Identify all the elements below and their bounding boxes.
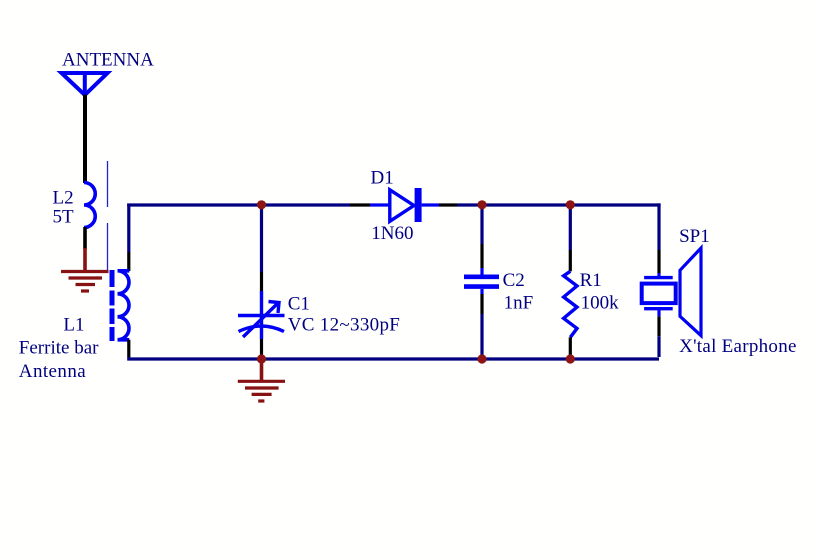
pin SP1 bottom black xyxy=(657,316,660,336)
diode D1 xyxy=(390,188,422,222)
ground GND2 xyxy=(238,358,285,401)
speaker SP1 xyxy=(642,248,701,336)
pin D1 left black xyxy=(350,203,370,206)
wire SP1 branch lower xyxy=(657,336,660,357)
resistor R1 xyxy=(564,271,577,337)
pin C1 bottom black xyxy=(260,339,263,356)
pin SP1 bottom blue xyxy=(657,309,660,317)
svg-text:1N60: 1N60 xyxy=(371,223,413,244)
svg-text:X'tal Earphone: X'tal Earphone xyxy=(679,336,797,357)
svg-text:1nF: 1nF xyxy=(504,293,534,314)
svg-text:Antenna: Antenna xyxy=(19,361,86,382)
pin C2 bottom blue xyxy=(480,289,483,294)
pin C2 top black xyxy=(480,244,483,268)
pin C1 top black xyxy=(260,272,263,291)
wire C1 branch upper xyxy=(260,205,263,272)
junction top R1 xyxy=(566,200,575,209)
pin SP1 top blue xyxy=(657,273,660,278)
svg-text:D1: D1 xyxy=(371,167,394,188)
pin D1 right blue xyxy=(422,203,439,206)
pin C2 top blue xyxy=(480,268,483,275)
pin R1 top black xyxy=(569,250,572,271)
wire L2 to ground xyxy=(83,227,87,249)
svg-text:ANTENNA: ANTENNA xyxy=(62,50,154,71)
pin C2 bottom black xyxy=(480,294,483,314)
ground GND1 xyxy=(61,248,109,291)
svg-text:L1: L1 xyxy=(63,315,84,336)
ferrite core line xyxy=(107,161,109,207)
wire R1 branch upper xyxy=(569,205,572,250)
variable capacitor C1 xyxy=(238,291,285,339)
wire SP1 branch upper xyxy=(657,203,660,250)
inductor L1 xyxy=(112,270,129,341)
pin D1 left blue xyxy=(370,203,389,206)
pin SP1 top black xyxy=(657,250,660,273)
wire left top vertical xyxy=(127,204,130,253)
svg-text:SP1: SP1 xyxy=(679,226,710,247)
svg-text:VC 12~330pF: VC 12~330pF xyxy=(288,314,401,335)
junction bottom R1 xyxy=(566,354,575,363)
antenna symbol xyxy=(62,73,108,95)
wire bottom rail xyxy=(129,357,659,359)
junction top C2 xyxy=(477,200,486,209)
wire top rail right xyxy=(457,203,661,206)
pin L1 bottom black xyxy=(127,340,130,358)
junction top C1 xyxy=(257,200,266,209)
junction bottom C1 xyxy=(257,354,266,363)
svg-text:C1: C1 xyxy=(288,294,310,315)
wire C2 branch lower xyxy=(480,314,483,359)
pin D1 right black xyxy=(439,203,457,206)
svg-text:R1: R1 xyxy=(580,270,602,291)
wire antenna stem xyxy=(83,95,87,184)
wire C2 branch upper xyxy=(480,205,483,244)
svg-text:5T: 5T xyxy=(53,207,75,228)
inductor L2 xyxy=(84,183,95,228)
svg-text:L2: L2 xyxy=(53,188,74,209)
junction bottom C2 xyxy=(477,354,486,363)
svg-text:Ferrite bar: Ferrite bar xyxy=(19,337,99,358)
svg-text:100k: 100k xyxy=(581,293,620,314)
capacitor C2 xyxy=(464,277,499,287)
pin L1 top black xyxy=(127,252,130,271)
pin R1 bottom black xyxy=(569,337,572,359)
wire top rail left xyxy=(127,203,350,206)
svg-text:C2: C2 xyxy=(503,270,525,291)
